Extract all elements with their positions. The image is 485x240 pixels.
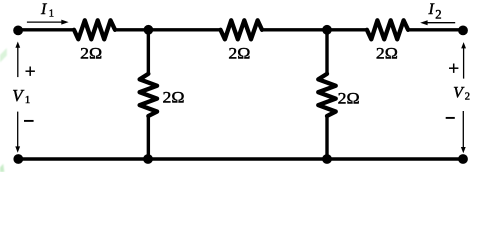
voltage arrow V2 down (right, −) [461, 111, 466, 153]
voltage arrow V1 up (left, +) [15, 42, 20, 78]
svg-text:2Ω: 2Ω [163, 89, 185, 107]
wire top segment right [407, 28, 463, 31]
plus sign left [26, 67, 35, 76]
minus sign right [446, 117, 455, 119]
resistor R4 (shunt left, vertical) [140, 74, 158, 116]
resistor R2 (series middle) [221, 20, 263, 39]
svg-text:2Ω: 2Ω [80, 45, 102, 63]
svg-text:2: 2 [465, 91, 470, 102]
wire top segment left [18, 28, 75, 31]
node dot top junction A [144, 25, 154, 35]
svg-text:2: 2 [435, 8, 441, 22]
watermark green wedge upper-left edge [0, 48, 7, 63]
node dot top junction B [322, 25, 332, 35]
svg-text:1: 1 [25, 94, 30, 106]
wire shunt-2 upper [325, 30, 328, 75]
node dot bottom-left terminal [13, 154, 23, 164]
resistor R5 (shunt right, vertical) [318, 74, 336, 116]
current arrow I1 [27, 20, 69, 25]
wire shunt-2 lower [325, 115, 328, 159]
svg-text:2Ω: 2Ω [228, 44, 250, 62]
wire shunt-1 lower [147, 115, 150, 159]
node dot bottom junction B [322, 154, 332, 164]
wire bottom [18, 157, 463, 161]
current arrow I2 [420, 20, 455, 25]
minus sign left [24, 120, 34, 122]
svg-text:I: I [428, 1, 435, 18]
plus sign right [449, 64, 458, 73]
wire shunt-1 upper [147, 30, 150, 75]
svg-text:2Ω: 2Ω [338, 90, 360, 108]
svg-text:I: I [40, 1, 47, 18]
watermark green wedge bottom-left corner [0, 164, 4, 172]
resistor R1 (series left) [74, 20, 115, 39]
svg-text:2Ω: 2Ω [376, 44, 398, 62]
wire top segment between R2 and R3 [261, 28, 368, 31]
node dot bottom-right terminal [458, 154, 468, 164]
wire top segment between R1 and R2 [114, 28, 222, 31]
voltage arrow V2 up (right, +) [461, 42, 466, 79]
voltage arrow V1 down (left, −) [15, 112, 20, 153]
node dot top-left terminal [13, 26, 23, 36]
svg-text:1: 1 [49, 9, 54, 20]
node dot bottom junction A [143, 154, 153, 164]
resistor R3 (series right) [367, 20, 408, 39]
node dot top-right terminal [458, 26, 468, 36]
